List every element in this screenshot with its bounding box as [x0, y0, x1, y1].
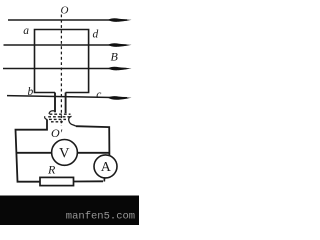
- wire right brush to right rail: [76, 126, 109, 155]
- svg-text:R: R: [47, 163, 56, 177]
- svg-text:d: d: [93, 29, 99, 41]
- brush right (C hook): [69, 116, 76, 126]
- coil abcd: [35, 30, 89, 93]
- brush hook on left lead: [49, 111, 54, 114]
- field line 1 (top B arrow): [8, 18, 132, 22]
- svg-text:B: B: [111, 50, 119, 64]
- svg-text:manfen5.com: manfen5.com: [66, 211, 135, 223]
- svg-text:V: V: [59, 146, 70, 162]
- svg-text:A: A: [101, 160, 112, 175]
- resistor R box: [40, 177, 74, 185]
- voltmeter V: [52, 140, 78, 166]
- svg-text:c: c: [96, 89, 101, 101]
- svg-text:a: a: [23, 25, 29, 37]
- field line 4 (bottom B arrow): [7, 96, 132, 100]
- wire resistor to ammeter: [74, 180, 104, 182]
- wire left brush down to left rail: [16, 120, 48, 182]
- coil lead left: [54, 93, 56, 113]
- svg-text:O′: O′: [51, 126, 63, 140]
- wire voltmeter left: [16, 152, 52, 154]
- ammeter A: [94, 155, 117, 178]
- field line 2: [4, 43, 132, 47]
- field line 3: [3, 67, 132, 71]
- slip ring hatch block: [48, 114, 70, 122]
- wire voltmeter right: [77, 152, 109, 154]
- brush left terminal curl: [45, 116, 48, 119]
- ammeter bottom stub: [103, 178, 105, 182]
- svg-text:b: b: [28, 86, 34, 98]
- coil lead right: [65, 93, 67, 114]
- axis OO' dashed line: [60, 15, 62, 127]
- watermark bar: [0, 196, 139, 226]
